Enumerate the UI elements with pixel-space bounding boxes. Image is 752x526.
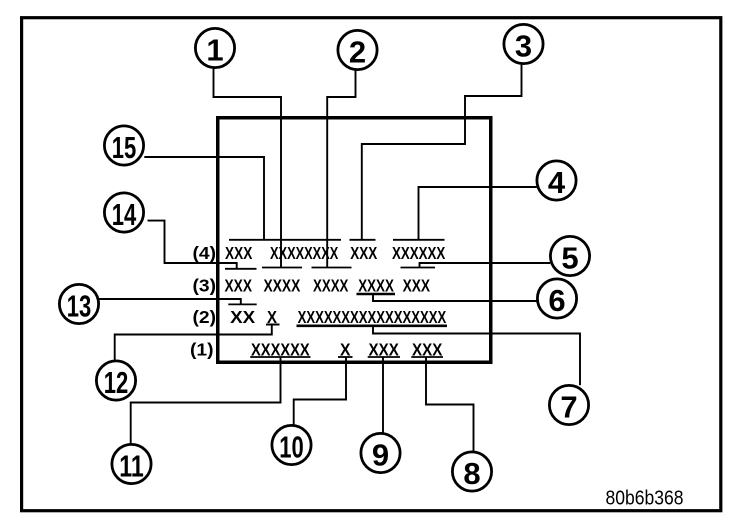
svg-text:XXXX: XXXX — [264, 275, 301, 295]
svg-text:3: 3 — [515, 28, 532, 63]
svg-text:XXX: XXX — [225, 275, 253, 295]
svg-text:XXXXXXXXXXXXXXXXX: XXXXXXXXXXXXXXXXX — [298, 307, 447, 327]
svg-text:(4): (4) — [193, 243, 217, 263]
svg-text:5: 5 — [561, 240, 578, 275]
svg-text:6: 6 — [548, 283, 565, 318]
svg-text:7: 7 — [560, 389, 577, 424]
svg-text:13: 13 — [67, 288, 92, 323]
svg-text:XXXXXX: XXXXXX — [392, 243, 446, 263]
svg-text:XXXX: XXXX — [313, 275, 349, 295]
svg-text:4: 4 — [548, 165, 566, 200]
svg-text:XX: XX — [230, 307, 255, 327]
svg-text:10: 10 — [279, 429, 304, 464]
svg-text:(3): (3) — [193, 275, 217, 295]
svg-text:X: X — [340, 339, 351, 359]
svg-text:15: 15 — [112, 130, 137, 165]
svg-text:8: 8 — [463, 456, 480, 491]
svg-text:XXXXXX: XXXXXX — [251, 339, 310, 359]
svg-text:9: 9 — [372, 437, 389, 472]
svg-text:2: 2 — [349, 34, 366, 69]
svg-text:XXXX: XXXX — [358, 275, 394, 295]
svg-text:X: X — [267, 307, 277, 327]
svg-text:XXX: XXX — [369, 339, 400, 359]
svg-text:(1): (1) — [190, 339, 214, 359]
svg-text:XXXXXXXX: XXXXXXXX — [270, 243, 339, 263]
svg-text:XXX: XXX — [350, 243, 377, 263]
svg-text:11: 11 — [119, 448, 144, 483]
svg-text:80b6b368: 80b6b368 — [606, 487, 684, 509]
svg-text:XXX: XXX — [412, 339, 443, 359]
svg-text:14: 14 — [112, 197, 137, 232]
svg-text:1: 1 — [206, 32, 223, 67]
svg-text:XXX: XXX — [403, 275, 431, 295]
svg-text:12: 12 — [104, 365, 129, 400]
svg-text:(2): (2) — [193, 307, 217, 327]
svg-text:XXX: XXX — [225, 243, 253, 263]
